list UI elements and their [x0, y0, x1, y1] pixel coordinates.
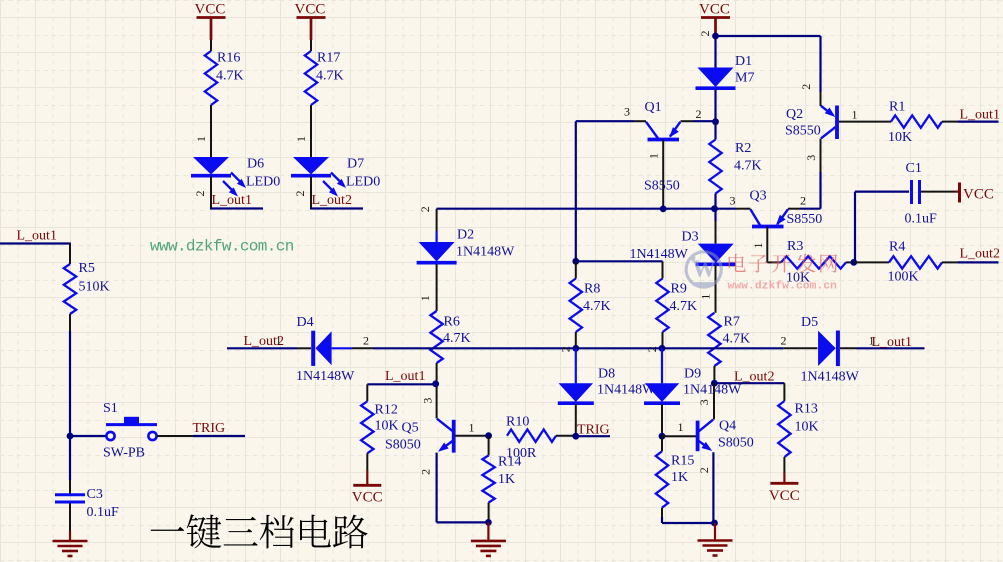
svg-text:VCC: VCC	[769, 488, 800, 504]
wire D7 to L_out2	[310, 177, 312, 209]
pin 2 of D8	[558, 346, 572, 352]
net label TRIG (left)	[193, 421, 226, 436]
svg-text:100R: 100R	[506, 446, 537, 461]
svg-text:SW-PB: SW-PB	[103, 446, 145, 461]
svg-text:1N4148W: 1N4148W	[296, 369, 355, 384]
svg-text:R6: R6	[444, 315, 460, 330]
ground (middle)	[471, 522, 506, 556]
wire L_out1 to R6 node	[367, 383, 435, 385]
wire Q1 emitter to node	[681, 120, 716, 122]
wire D4 left lead	[297, 347, 311, 349]
svg-text:1: 1	[699, 294, 713, 300]
wire D2 top lead	[436, 209, 438, 242]
wire Q3 emitter	[788, 208, 821, 210]
wire D5 right lead	[840, 347, 925, 349]
svg-text:S8050: S8050	[385, 438, 421, 453]
svg-text:R15: R15	[671, 454, 694, 469]
net label L_out2 (D7)	[312, 193, 352, 208]
svg-text:0.1uF: 0.1uF	[87, 505, 120, 520]
wire S1 to TRIG	[157, 435, 245, 437]
svg-text:4.7K: 4.7K	[583, 299, 611, 314]
transistor Q3 S8550	[750, 189, 823, 228]
diode D9 1N4148W	[644, 367, 742, 404]
svg-text:2: 2	[799, 84, 813, 90]
resistor R17	[305, 51, 344, 106]
resistor R10	[506, 415, 556, 462]
pin 1 of Q5	[469, 421, 475, 435]
svg-text:100K: 100K	[888, 270, 919, 285]
svg-text:R4: R4	[889, 240, 905, 255]
wire R6 to junction	[436, 363, 438, 418]
svg-text:1N4148W: 1N4148W	[801, 370, 860, 385]
svg-text:0.1uF: 0.1uF	[905, 212, 938, 227]
svg-text:2: 2	[698, 31, 712, 37]
diode D5 1N4148W	[801, 315, 860, 385]
pin 1 of D3	[699, 294, 713, 300]
svg-text:2: 2	[696, 107, 702, 121]
pin 2 of Q3	[800, 194, 806, 208]
capacitor C3	[55, 487, 119, 520]
wire R3 to junction	[846, 261, 854, 263]
svg-text:3: 3	[697, 399, 711, 405]
svg-text:10K: 10K	[375, 419, 399, 434]
pin 2 of D4	[363, 334, 369, 348]
svg-text:1: 1	[194, 136, 208, 142]
pin 1 of D6	[194, 136, 208, 142]
svg-text:L_out1: L_out1	[872, 335, 912, 350]
pin 2 of D2	[418, 206, 432, 212]
watermark logo circle W	[686, 252, 721, 287]
wire R4 to L_out2	[942, 261, 999, 263]
watermark text dianzi kaifa wang	[729, 254, 838, 273]
resistor R1	[888, 100, 942, 146]
svg-text:D3: D3	[682, 230, 699, 245]
pin 2 of D6	[193, 191, 207, 197]
power VCC symbol (R16 branch)	[195, 2, 226, 52]
svg-text:4.7K: 4.7K	[734, 159, 762, 174]
wire mid horizontal	[437, 208, 715, 210]
net label L_out2 (R4)	[960, 247, 1000, 262]
svg-text:R3: R3	[787, 239, 803, 254]
resistor R7	[708, 313, 750, 366]
junction R3 R4 C1	[850, 259, 857, 266]
svg-text:L_out2: L_out2	[312, 193, 352, 208]
svg-text:4.7K: 4.7K	[316, 69, 344, 84]
svg-text:1: 1	[852, 108, 858, 122]
junction D8 top	[572, 345, 579, 352]
svg-text:3: 3	[624, 105, 630, 119]
svg-text:1K: 1K	[498, 472, 515, 487]
wire D9 bottom lead	[661, 404, 663, 436]
junction ground mid	[485, 519, 492, 526]
pin 1 of D7	[294, 136, 308, 142]
wire C3 to ground	[69, 504, 71, 533]
ground (left)	[53, 531, 88, 556]
wire Q2 base to R1	[839, 121, 891, 123]
junction R6 L_out1	[432, 380, 439, 387]
svg-text:3: 3	[730, 194, 736, 208]
pin 3 of Q5 column	[420, 398, 434, 404]
svg-text:2: 2	[293, 191, 307, 197]
pin 2 of Q4	[697, 467, 711, 473]
svg-text:VCC: VCC	[195, 2, 226, 18]
svg-text:C1: C1	[906, 161, 922, 176]
power VCC symbol (R17 branch)	[295, 2, 326, 52]
net label L_out1 (R1)	[960, 108, 1000, 123]
power VCC symbol (R13 down)	[769, 473, 800, 505]
svg-text:S8550: S8550	[787, 212, 823, 227]
title text yijiansandang circuit	[151, 514, 368, 548]
wire L_out1 corner to R12	[366, 384, 368, 401]
wire corner to R5	[69, 243, 71, 265]
wire C1 to VCC	[921, 191, 955, 193]
svg-text:VCC: VCC	[963, 187, 994, 203]
pin 1 of Q3	[751, 243, 765, 249]
net label L_out1 (R12)	[385, 369, 425, 384]
junction Q5 base	[485, 432, 492, 439]
svg-text:2: 2	[800, 194, 806, 208]
ground (right)	[698, 523, 733, 556]
diode D1 M7	[696, 54, 755, 88]
transistor Q4 S8050	[698, 419, 754, 452]
wire R9 top lead	[662, 261, 664, 278]
wire to C3	[69, 480, 71, 494]
pin 2 of Q1	[696, 107, 702, 121]
junction VCC node	[712, 33, 719, 40]
svg-text:S8050: S8050	[718, 436, 754, 451]
wire D2 to R6	[436, 264, 438, 311]
wire VCC to D1	[714, 36, 716, 68]
svg-text:VCC: VCC	[699, 2, 730, 18]
svg-text:4.7K: 4.7K	[443, 331, 471, 346]
svg-text:10K: 10K	[888, 130, 912, 145]
svg-text:Q4: Q4	[719, 419, 736, 434]
wire D8 top lead	[575, 348, 577, 383]
pin 1 of Q1	[646, 153, 660, 159]
wire junction to R4	[854, 261, 889, 263]
pin 1 of Q4	[678, 420, 684, 434]
junction TRIG	[572, 433, 579, 440]
junction ground right	[711, 520, 718, 527]
wire R2 to node2	[714, 194, 716, 222]
svg-text:VCC: VCC	[295, 2, 326, 18]
resistor R5	[64, 261, 110, 314]
junction R2 bottom	[711, 205, 718, 212]
transistor Q5 S8050	[437, 419, 454, 453]
wire R13 to VCC	[783, 457, 785, 473]
transistor Q1 S8550	[644, 100, 680, 194]
svg-text:D4: D4	[297, 315, 314, 330]
svg-text:L_out1: L_out1	[17, 229, 57, 244]
wire Q1 branch vertical	[575, 121, 577, 261]
wire L_out2 stub (D7)	[310, 207, 363, 209]
svg-text:W: W	[692, 257, 716, 283]
wire Q4 base	[662, 435, 697, 437]
wire R12 to VCC	[366, 453, 368, 471]
svg-text:M7: M7	[735, 71, 754, 86]
svg-text:L_out2: L_out2	[960, 247, 1000, 262]
svg-text:4.7K: 4.7K	[216, 69, 244, 84]
svg-text:Q2: Q2	[786, 107, 803, 122]
svg-text:D2: D2	[457, 228, 474, 243]
power VCC symbol (main)	[699, 2, 730, 37]
svg-text:4.7K: 4.7K	[723, 332, 751, 347]
svg-text:3: 3	[420, 398, 434, 404]
svg-text:R5: R5	[79, 261, 95, 276]
pin 2 of D9	[645, 346, 659, 352]
capacitor C1	[905, 161, 938, 227]
power VCC symbol (C1 right)	[955, 183, 994, 203]
wire long row middle	[373, 347, 784, 349]
svg-text:R13: R13	[795, 402, 818, 417]
svg-text:D1: D1	[735, 54, 752, 69]
wire L_out1 left	[0, 242, 70, 244]
svg-text:1: 1	[276, 334, 282, 348]
svg-text:510K: 510K	[79, 280, 110, 295]
wire R5 lower lead	[69, 314, 71, 331]
wire D3 to R7	[715, 265, 717, 313]
svg-text:2: 2	[363, 334, 369, 348]
svg-text:R10: R10	[506, 415, 529, 430]
wire VCC to Q2 emitter	[716, 36, 821, 106]
wire left vertical	[69, 331, 71, 480]
junction D1 bottom	[712, 118, 719, 125]
resistor R4	[888, 240, 943, 285]
pin 3 of Q3	[730, 194, 736, 208]
junction D9 top	[659, 345, 666, 352]
svg-text:R12: R12	[375, 403, 398, 418]
labels Q5	[385, 421, 421, 453]
svg-text:1: 1	[678, 420, 684, 434]
wire R8 R9 link	[576, 260, 663, 262]
resistor R8	[570, 279, 611, 333]
svg-text:1N4148W: 1N4148W	[683, 383, 742, 398]
svg-text:S1: S1	[103, 401, 118, 416]
svg-text:2: 2	[193, 191, 207, 197]
wire R9 bottom lead	[662, 332, 664, 348]
svg-text:LED0: LED0	[246, 175, 280, 190]
wire Q2 collector down	[820, 139, 822, 209]
svg-text:1: 1	[751, 243, 765, 249]
net label L_out1 (left)	[17, 229, 57, 244]
svg-text:www.dzkfw.com.cn: www.dzkfw.com.cn	[728, 281, 838, 293]
pin 2 of Q5	[418, 469, 432, 475]
transistor Q2 S8550	[785, 106, 837, 140]
svg-text:L_out1: L_out1	[212, 193, 252, 208]
wire Q1 collector	[576, 120, 646, 122]
pin 2 of D1	[698, 31, 712, 37]
pin 1 of Q2	[852, 108, 858, 122]
resistor R3	[781, 239, 846, 286]
wire node to R2	[714, 122, 716, 140]
svg-text:R7: R7	[724, 315, 740, 330]
svg-text:D7: D7	[347, 157, 364, 172]
pin 1 of D2	[418, 295, 432, 301]
wire C1 branch	[855, 192, 909, 263]
svg-text:1K: 1K	[671, 470, 688, 485]
wire Q1 base down	[662, 140, 664, 209]
diode D3 1N4148W	[630, 230, 736, 265]
svg-text:L_out1: L_out1	[385, 369, 425, 384]
wire D1 to node	[714, 90, 716, 122]
watermark url pink	[728, 281, 838, 293]
svg-text:2: 2	[781, 334, 787, 348]
wire R15 top lead	[661, 436, 663, 451]
wire R17 to D7	[310, 105, 312, 157]
wire D6 to L_out1	[210, 177, 212, 209]
svg-text:D5: D5	[801, 315, 818, 330]
wire R8 bottom lead	[575, 332, 577, 348]
resistor R2	[709, 140, 761, 194]
svg-text:TRIG: TRIG	[193, 421, 226, 436]
svg-text:D8: D8	[598, 367, 615, 382]
wire L_out1 stub (D6)	[210, 207, 263, 209]
wire R1 to L_out1	[942, 121, 999, 123]
pin 3 of Q4 column	[697, 399, 711, 405]
wire R16 to D6	[210, 105, 212, 157]
svg-text:VCC: VCC	[352, 490, 383, 506]
svg-text:2: 2	[418, 206, 432, 212]
wire R14 bottom lead	[488, 503, 490, 523]
wire to Q4 collector	[713, 383, 715, 419]
pin 3 of Q2	[804, 155, 818, 161]
svg-text:3: 3	[804, 155, 818, 161]
svg-text:L_out1: L_out1	[960, 108, 1000, 123]
wire R8 top lead	[575, 261, 577, 278]
resistor R14	[482, 455, 521, 503]
wire D5 left lead	[784, 347, 818, 349]
switch S1 SW-PB	[103, 401, 157, 461]
wire R7 bottom lead	[713, 366, 715, 383]
resistor R9	[656, 279, 697, 333]
junction Q4 base	[659, 433, 666, 440]
net label TRIG (D8)	[577, 423, 610, 438]
wire Q5 base	[455, 435, 489, 437]
wire Q3 base L	[767, 227, 781, 263]
pin 1 of D5	[869, 334, 875, 348]
wire to S1	[70, 435, 106, 437]
svg-text:Q3: Q3	[750, 189, 767, 204]
svg-text:1: 1	[469, 421, 475, 435]
resistor R13	[778, 401, 818, 457]
svg-text:2: 2	[697, 467, 711, 473]
wire L_out2 to R13	[714, 382, 784, 384]
svg-text:R2: R2	[735, 141, 751, 156]
wire node2 to Q3	[715, 208, 751, 210]
pin 1 of D4	[276, 334, 282, 348]
junction Q1 base	[660, 206, 667, 213]
LED D7	[291, 157, 380, 197]
svg-text:2: 2	[418, 469, 432, 475]
resistor R16	[205, 51, 244, 106]
svg-text:S8550: S8550	[785, 124, 821, 139]
svg-text:LED0: LED0	[346, 175, 380, 190]
watermark url green	[150, 238, 294, 256]
diode D8 1N4148W	[558, 367, 656, 404]
svg-text:D9: D9	[684, 367, 701, 382]
wire D8 bottom lead	[575, 404, 577, 436]
svg-text:R17: R17	[317, 51, 340, 66]
wire Q4 emitter down	[712, 452, 714, 523]
pin 2 of Q2	[799, 84, 813, 90]
svg-text:1N4148W: 1N4148W	[630, 247, 689, 262]
wire R14 top lead	[488, 436, 490, 456]
svg-text:1: 1	[646, 153, 660, 159]
net label L_out1 (D5)	[872, 335, 912, 350]
svg-text:R16: R16	[217, 51, 240, 66]
wire D4 right lead	[332, 347, 373, 349]
svg-text:1N4148W: 1N4148W	[456, 245, 515, 260]
pin 2 of D7	[293, 191, 307, 197]
svg-text:10K: 10K	[795, 420, 819, 435]
pin 3 of Q1	[624, 105, 630, 119]
pin 2 of D5	[781, 334, 787, 348]
net label L_out2 (R7)	[734, 370, 774, 385]
svg-text:4.7K: 4.7K	[670, 299, 698, 314]
wire node2 to D3	[715, 221, 717, 244]
junction at S1 tap	[67, 433, 74, 440]
wire TRIG stub	[576, 435, 610, 437]
resistor R6	[430, 311, 470, 363]
power VCC symbol (R12 down)	[352, 471, 383, 506]
wire long row left	[227, 347, 297, 349]
junction R8 top	[572, 258, 579, 265]
svg-text:S8550: S8550	[644, 179, 680, 194]
svg-text:D6: D6	[247, 157, 264, 172]
wire R10 to TRIG	[556, 435, 576, 437]
diode D2 1N4148W	[417, 228, 516, 263]
LED D6	[191, 157, 280, 197]
svg-text:Q1: Q1	[645, 100, 662, 115]
diode D4 1N4148W	[296, 315, 355, 384]
svg-text:1: 1	[418, 295, 432, 301]
svg-text:R9: R9	[671, 282, 687, 297]
wire R15 bottom	[662, 508, 715, 523]
junction L_out2 tap	[711, 380, 718, 387]
wire R13 corner	[783, 383, 785, 401]
svg-text:1: 1	[294, 136, 308, 142]
svg-text:Q5: Q5	[402, 421, 419, 436]
svg-text:www.dzkfw.com.cn: www.dzkfw.com.cn	[150, 238, 294, 256]
svg-text:R8: R8	[584, 282, 600, 297]
svg-text:2: 2	[558, 346, 572, 352]
wire D9 top lead	[661, 348, 663, 383]
svg-text:R1: R1	[889, 100, 905, 115]
resistor R15	[656, 451, 695, 507]
wire Q5 emitter down	[437, 453, 489, 523]
svg-text:C3: C3	[87, 487, 103, 502]
net label L_out2 (D4)	[244, 334, 284, 349]
net label L_out1 (D6)	[212, 193, 252, 208]
resistor R12	[361, 401, 399, 453]
svg-text:2: 2	[645, 346, 659, 352]
